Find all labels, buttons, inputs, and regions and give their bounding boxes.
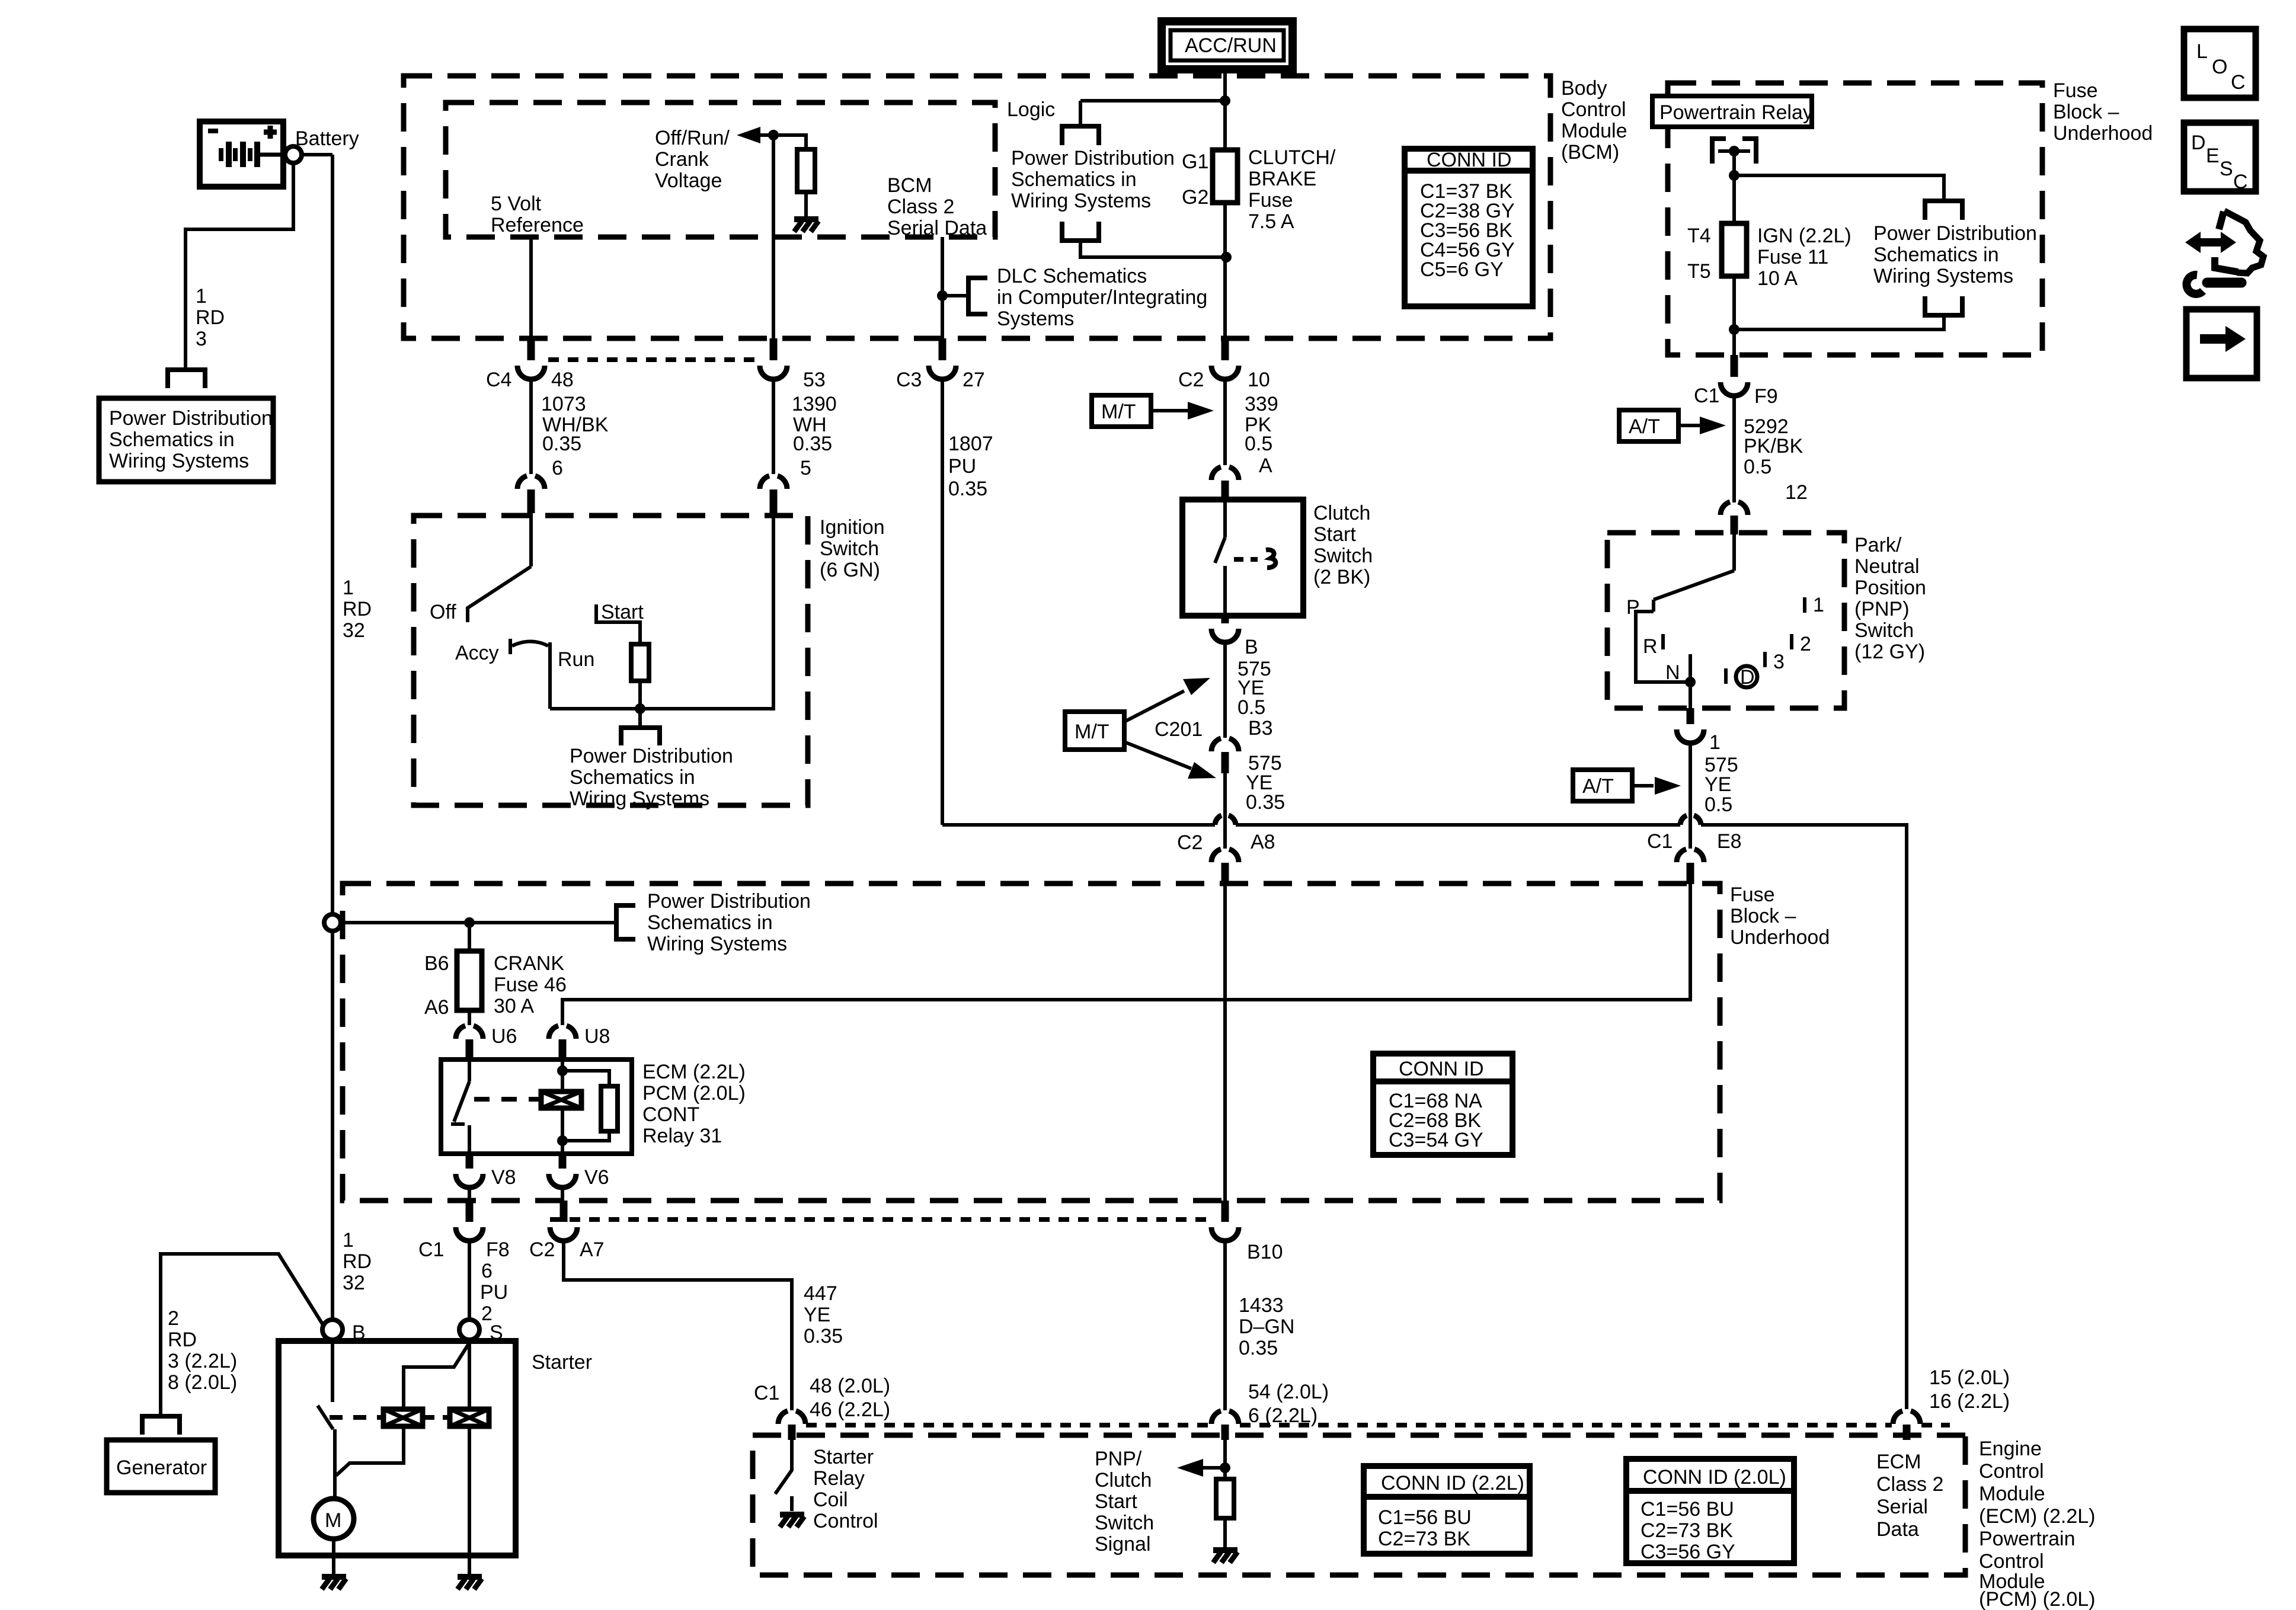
- svg-text:DLC Schematics: DLC Schematics: [997, 265, 1147, 287]
- svg-text:Logic: Logic: [1007, 98, 1055, 121]
- wire to resistor: [773, 135, 806, 149]
- off-page bracket (fuse block): [615, 907, 618, 923]
- svg-text:Starter: Starter: [813, 1446, 874, 1468]
- ACC/RUN label box: [1162, 21, 1293, 69]
- clutch switch pole: [1223, 501, 1227, 537]
- wire bracket back to main: [1734, 315, 1944, 329]
- svg-text:ACC/RUN: ACC/RUN: [1185, 34, 1277, 57]
- svg-text:Neutral: Neutral: [1854, 555, 1920, 578]
- wire C4 to ignition: [529, 379, 533, 474]
- svg-text:Fuse: Fuse: [2053, 79, 2098, 102]
- svg-text:RD: RD: [343, 1250, 372, 1273]
- svg-text:M/T: M/T: [1075, 721, 1109, 743]
- svg-text:Starter: Starter: [532, 1351, 592, 1374]
- svg-text:Switch: Switch: [1313, 545, 1373, 567]
- CONN ID table (fuse block): [1373, 1054, 1512, 1155]
- wire resistor to ground: [804, 192, 808, 218]
- connector B10: [1221, 1201, 1229, 1222]
- wire ACC/RUN down: [1223, 69, 1227, 150]
- connector stub C2-10: [1221, 338, 1229, 360]
- svg-text:R: R: [1643, 635, 1658, 658]
- connector 6 (ignition input left): [517, 476, 545, 489]
- svg-text:Start: Start: [601, 601, 644, 623]
- relay contact blade: [454, 1081, 469, 1122]
- svg-text:Relay 31: Relay 31: [642, 1125, 722, 1147]
- svg-text:Control: Control: [813, 1510, 878, 1532]
- wire C3 down: [941, 379, 944, 825]
- svg-text:PCM (2.0L): PCM (2.0L): [642, 1082, 746, 1105]
- clutch switch blade: [1215, 537, 1225, 563]
- relay contact lower: [468, 1125, 471, 1153]
- svg-text:N: N: [1665, 661, 1680, 684]
- svg-text:3: 3: [1773, 651, 1785, 673]
- svg-text:Run: Run: [558, 648, 594, 671]
- svg-text:G1: G1: [1182, 151, 1208, 173]
- svg-text:Power Distribution: Power Distribution: [109, 407, 273, 430]
- svg-text:L: L: [2196, 40, 2208, 63]
- coil resistor: [601, 1086, 618, 1131]
- svg-text:A/T: A/T: [1629, 415, 1660, 438]
- resistor (logic): [797, 149, 815, 192]
- node N junction: [1685, 677, 1696, 687]
- connector V8: [466, 1153, 474, 1169]
- svg-text:O: O: [2212, 56, 2227, 78]
- svg-text:A/T: A/T: [1582, 775, 1614, 798]
- svg-text:Position: Position: [1854, 577, 1926, 599]
- svg-text:A: A: [1259, 454, 1272, 477]
- svg-text:7.5 A: 7.5 A: [1248, 210, 1294, 233]
- arrow M/T down to 575 YE 0.35: [1124, 742, 1191, 769]
- svg-text:ECM (2.2L): ECM (2.2L): [642, 1061, 746, 1083]
- arrow M/T to wire: [1151, 409, 1188, 412]
- svg-text:48: 48: [551, 369, 574, 391]
- wire C2 down: [1223, 379, 1227, 465]
- wire V6 down: [561, 1188, 564, 1201]
- terminal 3 tick: [1763, 652, 1767, 667]
- svg-text:Voltage: Voltage: [655, 169, 722, 192]
- svg-text:(6 GN): (6 GN): [820, 559, 880, 581]
- starter contact blade: [318, 1406, 333, 1429]
- connector C2-10: [1211, 366, 1239, 379]
- svg-text:16 (2.2L): 16 (2.2L): [1929, 1390, 2010, 1413]
- wire resistor down: [638, 681, 642, 709]
- svg-text:Start: Start: [1095, 1490, 1137, 1513]
- svg-text:6: 6: [552, 457, 563, 479]
- R contact tick: [1661, 634, 1665, 649]
- ground (solenoid): [458, 1577, 482, 1589]
- solenoid X-box 2: [450, 1409, 489, 1426]
- svg-text:Relay: Relay: [813, 1467, 865, 1490]
- svg-text:2: 2: [168, 1307, 179, 1330]
- svg-text:54 (2.0L): 54 (2.0L): [1248, 1381, 1329, 1403]
- svg-text:C: C: [2231, 71, 2246, 94]
- svg-text:Coil: Coil: [813, 1489, 848, 1511]
- svg-text:RD: RD: [343, 598, 372, 620]
- PNP blade to P: [1654, 571, 1734, 600]
- coil resistor loop: [562, 1071, 609, 1141]
- svg-text:U8: U8: [584, 1025, 610, 1048]
- svg-text:Fuse 11: Fuse 11: [1757, 246, 1828, 268]
- svg-text:Generator: Generator: [116, 1457, 207, 1479]
- connector A7: [560, 1201, 568, 1222]
- starter relay coil switch: [775, 1439, 792, 1494]
- starter link dashes: [330, 1415, 382, 1420]
- powertrain relay label box: [1652, 96, 1812, 127]
- svg-text:E8: E8: [1717, 830, 1742, 853]
- svg-text:Switch: Switch: [820, 537, 879, 560]
- wire logic horizontal: [1080, 99, 1225, 103]
- svg-text:Clutch: Clutch: [1313, 502, 1370, 524]
- Accy contact tick: [509, 639, 512, 654]
- connector C1 (starter relay coil): [778, 1411, 805, 1424]
- svg-text:Power Distribution: Power Distribution: [1011, 147, 1175, 169]
- wire 5 volt ref down: [529, 237, 533, 356]
- ground (logic): [794, 219, 818, 232]
- svg-text:C3: C3: [896, 369, 922, 391]
- svg-text:C2=73 BK: C2=73 BK: [1641, 1519, 1733, 1542]
- svg-text:(12 GY): (12 GY): [1854, 641, 1925, 663]
- svg-text:Class 2: Class 2: [1876, 1473, 1943, 1496]
- E8 drop wire to U8: [562, 884, 1690, 1025]
- ground (motor): [322, 1577, 346, 1589]
- relay coil wire: [561, 1061, 564, 1153]
- switch blade to Off: [468, 566, 531, 622]
- svg-text:M: M: [325, 1509, 341, 1532]
- svg-text:B: B: [1245, 636, 1258, 658]
- CONN ID (2.2L) table: [1364, 1466, 1530, 1554]
- motor ground wire: [332, 1539, 335, 1576]
- svg-text:Powertrain Relay: Powertrain Relay: [1659, 101, 1813, 124]
- wire E8 down: [1689, 825, 1692, 849]
- svg-text:1433: 1433: [1239, 1294, 1284, 1317]
- arrow off/run: [758, 133, 773, 137]
- relay contact pole: [468, 1061, 471, 1081]
- ground (PNP signal): [1213, 1550, 1237, 1563]
- wire battery drop to RD3: [186, 163, 293, 368]
- connector 1 (PNP output): [1687, 708, 1694, 724]
- svg-text:RD: RD: [168, 1329, 197, 1351]
- generator box: [107, 1440, 215, 1493]
- DLC bracket: [942, 294, 968, 297]
- svg-text:Clutch: Clutch: [1095, 1469, 1152, 1491]
- connector 15-16: [1893, 1411, 1920, 1424]
- svg-text:B3: B3: [1248, 717, 1273, 740]
- svg-text:BRAKE: BRAKE: [1248, 168, 1316, 190]
- svg-text:U6: U6: [491, 1025, 517, 1048]
- starter B pole: [331, 1340, 334, 1402]
- svg-text:PNP/: PNP/: [1095, 1448, 1142, 1470]
- arrow A/T 2: [1632, 784, 1654, 788]
- node relay junction: [1729, 170, 1739, 181]
- ignition resistor: [631, 644, 649, 681]
- LOC icon box: [2184, 29, 2256, 98]
- svg-text:46 (2.2L): 46 (2.2L): [810, 1398, 890, 1421]
- power distribution schematics box: [99, 398, 273, 482]
- relay coil X-box: [541, 1092, 581, 1108]
- svg-text:(BCM): (BCM): [1561, 141, 1619, 164]
- svg-text:P: P: [1626, 596, 1640, 619]
- svg-text:C: C: [2233, 171, 2248, 193]
- PNP signal arrow: [1203, 1466, 1225, 1470]
- svg-text:Underhood: Underhood: [2053, 122, 2153, 145]
- svg-text:CONN ID (2.2L): CONN ID (2.2L): [1381, 1472, 1524, 1494]
- svg-text:M/T: M/T: [1101, 401, 1136, 423]
- svg-text:C2: C2: [1178, 369, 1204, 391]
- svg-text:8 (2.0L): 8 (2.0L): [168, 1371, 237, 1394]
- connector arc A8 on line: [1215, 815, 1236, 825]
- svg-text:CONN ID (2.0L): CONN ID (2.0L): [1643, 1466, 1786, 1489]
- battery bus wire: [341, 921, 616, 924]
- connector 12 (PNP input): [1721, 502, 1748, 515]
- M/T box 2: [1065, 712, 1124, 750]
- P to N wire: [1636, 612, 1690, 682]
- CONN ID table (BCM): [1405, 149, 1533, 306]
- wire 1 down to junction: [1689, 743, 1692, 825]
- connector 53: [760, 366, 787, 379]
- wire to power dist bracket (right): [1734, 175, 1944, 201]
- svg-text:B6: B6: [424, 952, 449, 975]
- connector C1-F9: [1731, 355, 1738, 377]
- wire A8 to B10: [1223, 884, 1227, 1201]
- svg-text:D: D: [2191, 132, 2206, 154]
- svg-text:CONN ID: CONN ID: [1399, 1058, 1484, 1080]
- svg-text:1: 1: [343, 577, 354, 599]
- A/T box 1: [1619, 410, 1678, 441]
- terminal D tick: [1724, 668, 1728, 684]
- svg-text:3: 3: [196, 328, 207, 350]
- terminal circle B: [322, 1320, 343, 1340]
- arrow M/T up to 575 YE 0.5: [1124, 691, 1184, 722]
- node ignition bus: [635, 703, 645, 714]
- svg-text:Class 2: Class 2: [887, 196, 954, 218]
- connector A8 entry: [1211, 849, 1239, 862]
- svg-text:27: 27: [962, 369, 985, 391]
- svg-text:Battery: Battery: [295, 127, 359, 150]
- terminal D circle: [1736, 666, 1757, 687]
- svg-text:Schematics in: Schematics in: [1011, 168, 1137, 191]
- svg-text:C1: C1: [754, 1382, 779, 1404]
- wire serial data down: [941, 237, 944, 356]
- ECM dashed box: [753, 1435, 1965, 1575]
- arrow icon box: [2186, 309, 2257, 378]
- svg-text:0.35: 0.35: [542, 433, 581, 455]
- terminal circle S: [459, 1320, 479, 1340]
- accy-run arc: [512, 642, 548, 646]
- connector V6: [559, 1153, 567, 1169]
- battery plus label: [264, 126, 277, 139]
- svg-text:Schematics in: Schematics in: [1873, 244, 1999, 266]
- wire C201 down to junction: [1223, 773, 1227, 825]
- off-page bracket to power distribution: [168, 370, 205, 388]
- svg-text:D–GN: D–GN: [1239, 1315, 1294, 1338]
- clutch switch link dashes: [1234, 557, 1258, 562]
- wire ignition pole: [529, 513, 533, 566]
- svg-text:Powertrain: Powertrain: [1979, 1528, 2076, 1550]
- CRANK fuse 46: [457, 951, 482, 1010]
- off-page bracket upper right: [1925, 201, 1962, 220]
- wire logic stem: [1079, 101, 1082, 126]
- svg-text:1: 1: [196, 285, 207, 308]
- X-box1 feed from S: [404, 1343, 469, 1409]
- BCM outer dashed box: [404, 76, 1550, 338]
- M/T box 1: [1092, 395, 1151, 427]
- svg-text:Schematics in: Schematics in: [109, 428, 235, 451]
- svg-text:C201: C201: [1155, 718, 1203, 741]
- wire bracket to fuse junction: [1080, 241, 1226, 257]
- svg-text:53: 53: [803, 369, 826, 391]
- svg-text:30 A: 30 A: [494, 995, 534, 1017]
- svg-text:Start: Start: [1313, 523, 1356, 546]
- svg-text:C5=6 GY: C5=6 GY: [1420, 258, 1504, 281]
- svg-text:Underhood: Underhood: [1730, 926, 1830, 949]
- svg-text:2: 2: [1800, 633, 1811, 655]
- Run contact: [548, 642, 552, 709]
- svg-text:Block –: Block –: [2053, 101, 2119, 123]
- svg-text:A7: A7: [580, 1238, 605, 1261]
- svg-text:15 (2.0L): 15 (2.0L): [1929, 1366, 2010, 1389]
- PNP signal resistor: [1216, 1479, 1234, 1518]
- svg-text:BCM: BCM: [887, 174, 932, 197]
- svg-text:0.35: 0.35: [804, 1325, 843, 1347]
- svg-text:Control: Control: [1561, 98, 1626, 121]
- svg-text:0.35: 0.35: [793, 433, 832, 455]
- connector C3: [929, 366, 956, 379]
- svg-text:0.35: 0.35: [948, 478, 987, 500]
- wire battery to main feed: [302, 153, 332, 156]
- terminal 2 tick: [1790, 634, 1793, 649]
- svg-text:T4: T4: [1687, 225, 1711, 247]
- svg-text:Ignition: Ignition: [820, 516, 885, 539]
- svg-text:339: 339: [1245, 393, 1278, 415]
- svg-text:Engine: Engine: [1979, 1438, 2042, 1460]
- dotted line C4-53: [548, 357, 757, 362]
- svg-text:PU: PU: [948, 455, 976, 478]
- svg-text:(PCM) (2.0L): (PCM) (2.0L): [1979, 1588, 2095, 1610]
- svg-text:Schematics in: Schematics in: [570, 766, 695, 789]
- connector 5 (ignition input right): [760, 476, 787, 489]
- wire A7 down and right: [564, 1241, 792, 1410]
- svg-text:(PNP): (PNP): [1854, 598, 1910, 620]
- svg-text:1: 1: [343, 1229, 354, 1251]
- svg-text:Off/Run/: Off/Run/: [655, 127, 730, 149]
- PNP signal ground wire: [1223, 1518, 1227, 1549]
- IGN fuse 11: [1722, 223, 1747, 276]
- svg-text:S: S: [2220, 158, 2233, 180]
- svg-text:CONT: CONT: [642, 1103, 699, 1126]
- svg-text:0.5: 0.5: [1245, 433, 1272, 455]
- node off/run: [768, 130, 779, 140]
- off-page bracket lower: [1062, 222, 1099, 241]
- wire fuse to U6: [468, 1010, 471, 1025]
- svg-text:Signal: Signal: [1095, 1533, 1151, 1555]
- wire F8 to S: [468, 1241, 471, 1320]
- svg-text:Fuse: Fuse: [1248, 189, 1293, 212]
- S wire down: [468, 1340, 471, 1576]
- off-page bracket (generator): [142, 1416, 180, 1435]
- ground (starter relay coil): [780, 1515, 804, 1527]
- node: logic feed junction: [1220, 95, 1230, 106]
- PNP signal node: [1223, 1439, 1227, 1479]
- svg-text:CONN ID: CONN ID: [1427, 149, 1512, 171]
- svg-text:C1: C1: [1694, 385, 1719, 407]
- wire A8 down: [1223, 825, 1227, 849]
- battery cell plates: [221, 148, 250, 161]
- ECM CONT relay box: [441, 1060, 632, 1154]
- svg-text:Power Distribution: Power Distribution: [1873, 222, 2037, 245]
- connector 54-6: [1211, 1411, 1239, 1424]
- svg-text:32: 32: [343, 1272, 365, 1294]
- svg-text:RD: RD: [196, 306, 225, 329]
- node crank fuse tap: [464, 917, 475, 928]
- svg-text:5: 5: [800, 457, 811, 479]
- relay link dashes: [474, 1097, 539, 1102]
- svg-text:Off: Off: [430, 601, 456, 623]
- A/T box 2: [1573, 770, 1632, 801]
- svg-text:Power Distribution: Power Distribution: [570, 745, 733, 767]
- svg-text:Switch: Switch: [1854, 619, 1914, 642]
- svg-text:C4: C4: [486, 369, 511, 391]
- svg-text:1: 1: [1709, 731, 1721, 754]
- terminal 1 tick: [1803, 597, 1806, 613]
- svg-text:Block –: Block –: [1730, 905, 1796, 927]
- svg-text:CLUTCH/: CLUTCH/: [1248, 146, 1336, 169]
- DESC icon box: [2184, 123, 2256, 191]
- PNP pole wire: [1732, 534, 1736, 571]
- svg-text:Park/: Park/: [1854, 534, 1902, 556]
- starter coil branch: [336, 1426, 404, 1475]
- svg-text:1: 1: [1813, 594, 1824, 616]
- svg-text:C1: C1: [418, 1238, 444, 1261]
- off-page bracket (ignition): [621, 728, 660, 745]
- powertrain relay contact symbol: [1712, 139, 1756, 164]
- svg-text:Schematics in: Schematics in: [647, 911, 773, 934]
- svg-text:Fuse 46: Fuse 46: [494, 974, 567, 996]
- battery terminal circle: [285, 146, 302, 163]
- svg-text:C1=56 BU: C1=56 BU: [1641, 1498, 1734, 1521]
- svg-text:Control: Control: [1979, 1550, 2044, 1573]
- clutch switch plunger hook: [1266, 550, 1275, 568]
- clutch start switch box: [1182, 500, 1303, 616]
- battery box: [200, 121, 283, 187]
- node: main feed junction circle: [324, 914, 341, 931]
- svg-text:F8: F8: [486, 1238, 510, 1261]
- Start contact tick: [596, 604, 640, 644]
- svg-text:Body: Body: [1561, 77, 1607, 100]
- wire fuse to C1 F9: [1732, 276, 1736, 329]
- starter box: [279, 1341, 516, 1555]
- wire V8 down: [468, 1188, 471, 1201]
- P contact: [1652, 600, 1655, 612]
- connector U6: [456, 1026, 483, 1039]
- svg-text:Accy: Accy: [455, 642, 499, 664]
- svg-text:C2=73 BK: C2=73 BK: [1378, 1528, 1470, 1550]
- wire F9 down: [1732, 396, 1736, 502]
- svg-text:B10: B10: [1247, 1241, 1283, 1263]
- svg-text:A6: A6: [424, 996, 449, 1019]
- svg-text:(2 BK): (2 BK): [1313, 566, 1370, 588]
- svg-text:Wiring Systems: Wiring Systems: [647, 933, 787, 955]
- node at fuse top: [1221, 252, 1232, 263]
- svg-text:1073: 1073: [541, 393, 586, 415]
- svg-text:Switch: Switch: [1095, 1512, 1154, 1534]
- svg-text:Wiring Systems: Wiring Systems: [570, 788, 709, 810]
- wire G1 fuse feed: [1223, 150, 1227, 345]
- svg-text:A8: A8: [1251, 831, 1275, 853]
- svg-text:Reference: Reference: [491, 214, 584, 236]
- junction line (575 YE bus): [942, 823, 1215, 827]
- wire relay to junction: [1732, 151, 1736, 223]
- ignition bus wire: [550, 492, 773, 709]
